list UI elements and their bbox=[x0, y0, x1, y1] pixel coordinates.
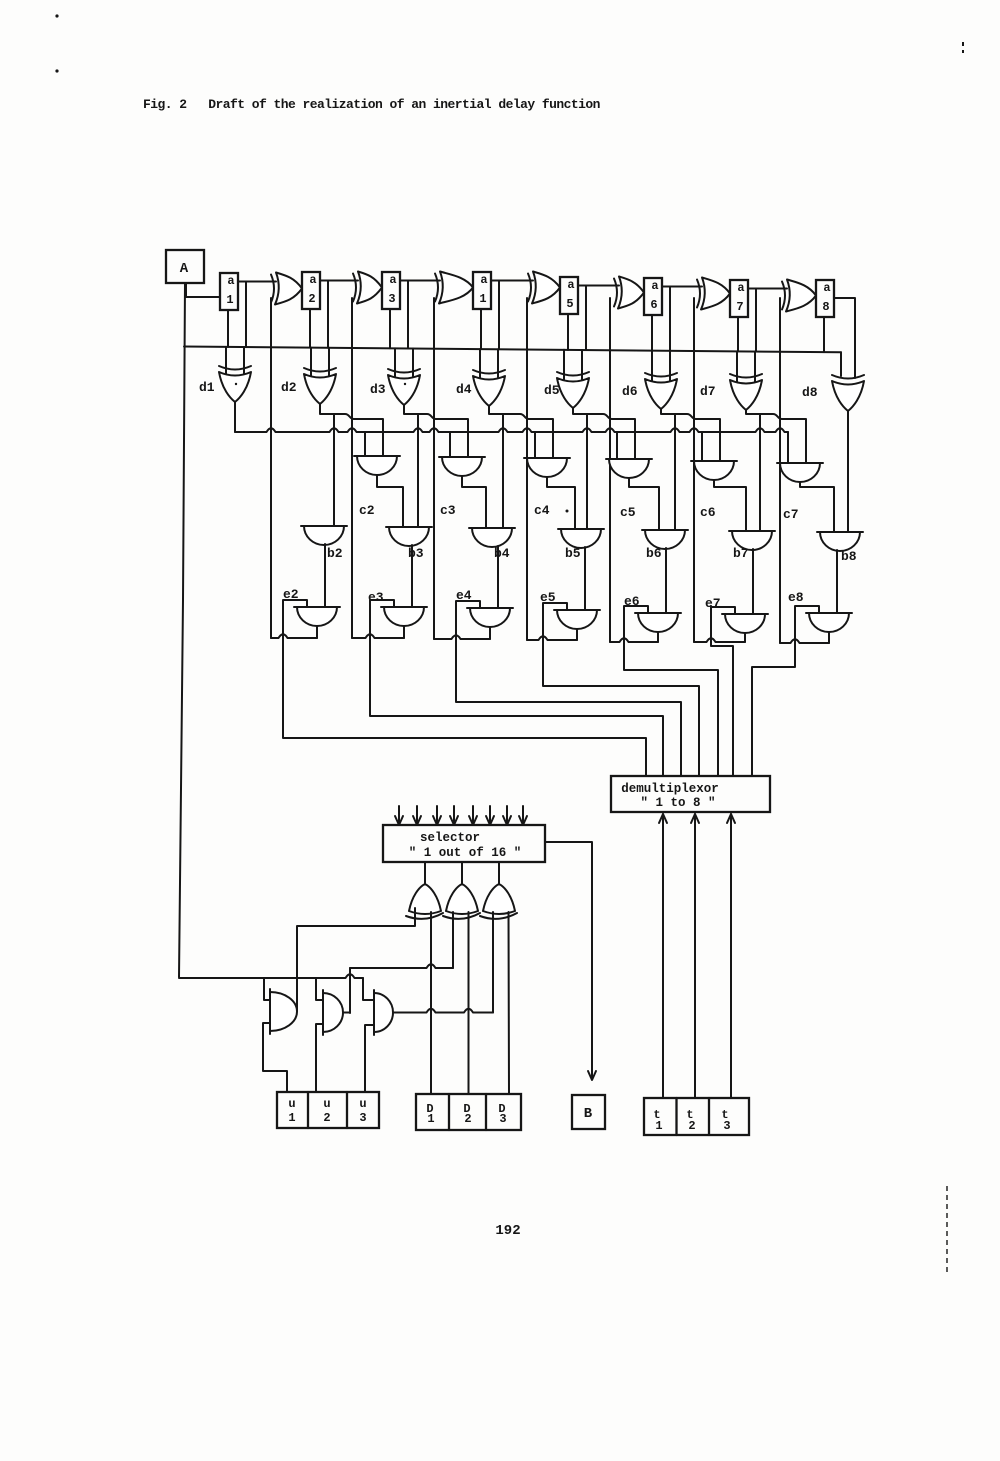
selector input arrow 5 bbox=[472, 806, 474, 825]
svg-text:c2: c2 bbox=[359, 503, 375, 518]
svg-text:d1: d1 bbox=[199, 380, 215, 395]
wire a6 bottom to bus bbox=[651, 315, 653, 351]
xor gate d7 bbox=[730, 374, 762, 378]
selector input arrow 1 bbox=[398, 806, 400, 825]
and gate c2 bbox=[354, 455, 400, 457]
wire and2 output bbox=[343, 1012, 350, 1014]
box selector 1 out of 16 bbox=[383, 825, 545, 862]
and gate e5 bbox=[554, 609, 600, 611]
wire long rail drop to c6 left input bbox=[701, 432, 703, 461]
wire bus to d3 inputs bbox=[394, 348, 396, 377]
wire a7 output tap to bus bbox=[755, 289, 757, 352]
wire vertical column 2 (xor2 low input down to e2 output) bbox=[270, 298, 272, 638]
svg-text:3: 3 bbox=[359, 1111, 366, 1125]
wire a6 output tap to bus bbox=[669, 287, 671, 351]
svg-text:7: 7 bbox=[736, 300, 743, 314]
wire bus to d7 inputs bbox=[736, 351, 738, 382]
wire bus to d6 inputs bbox=[651, 351, 653, 381]
and gate c4 bbox=[524, 457, 570, 459]
wire e7 left input / demultiplexor input 6 bbox=[711, 607, 735, 776]
xor gate S1 (selector input) bbox=[409, 884, 441, 914]
svg-text:b8: b8 bbox=[841, 549, 857, 564]
wire and3 output rail to S3 left input bbox=[393, 1009, 493, 1013]
svg-text:a: a bbox=[567, 278, 574, 292]
xor gate X6 (feeds a6) bbox=[614, 279, 617, 307]
register a4 bbox=[473, 272, 491, 309]
divider t2/t3 bbox=[708, 1098, 710, 1135]
wire vertical column 5 (xor5 low input down to e5 output) bbox=[526, 298, 528, 640]
svg-text:c7: c7 bbox=[783, 507, 799, 522]
wire u1 to and1 low input bbox=[263, 1023, 287, 1092]
svg-text:6: 6 bbox=[650, 298, 657, 312]
wire vertical column 6 (xor6 low input down to e6 output) bbox=[609, 298, 611, 642]
wire t2 to demultiplexor (arrow up) bbox=[694, 814, 696, 1098]
wire c7 output to b8 left input bbox=[800, 482, 834, 532]
svg-text:2: 2 bbox=[464, 1112, 471, 1126]
wire a7 output to xor8 bbox=[748, 288, 787, 290]
and gate e7 bbox=[722, 613, 768, 615]
svg-text:1: 1 bbox=[226, 293, 233, 307]
wire S3 right input to D3 bbox=[508, 912, 511, 1094]
wire b3 output to e3 right input bbox=[411, 545, 413, 607]
svg-text:d2: d2 bbox=[281, 380, 297, 395]
wire e3 left input / demultiplexor input 2 bbox=[370, 600, 663, 776]
wire d2 rail T-drop to b2 right input bbox=[333, 414, 335, 526]
wire a8 output to d8 bbox=[834, 298, 855, 378]
wire a3 output tap to bus bbox=[407, 281, 409, 349]
wire and1 output up to S1 rail bbox=[296, 978, 298, 1012]
svg-text:2: 2 bbox=[323, 1111, 330, 1125]
wire c3 output to b4 left input bbox=[462, 476, 486, 528]
divider D2/D3 bbox=[485, 1094, 487, 1130]
and gate U3 bbox=[373, 990, 375, 1035]
wire S2 right input to D2 bbox=[468, 912, 470, 1094]
wire A-chain to S1 left input bbox=[297, 908, 415, 978]
selector input arrow 4 bbox=[453, 806, 455, 825]
svg-text:d4: d4 bbox=[456, 382, 472, 397]
wire and2 output to S2 left input bbox=[350, 964, 453, 968]
svg-text:a: a bbox=[737, 281, 744, 295]
wire d5 output rail to c5 right input bbox=[573, 408, 635, 459]
wire a5 bottom to bus bbox=[567, 314, 569, 350]
svg-text:d6: d6 bbox=[622, 384, 638, 399]
wire a5 output tap to bus bbox=[585, 286, 587, 351]
wire a1 bottom to bus bbox=[227, 310, 229, 347]
wire long rail drop to c5 left input bbox=[616, 432, 618, 459]
svg-text:u: u bbox=[288, 1097, 295, 1111]
divider u1/u2 bbox=[307, 1092, 309, 1128]
wire a1 output tap to bus bbox=[245, 282, 247, 348]
svg-text:a: a bbox=[227, 274, 234, 288]
svg-text:2: 2 bbox=[308, 292, 315, 306]
register a5 bbox=[560, 277, 578, 314]
wire bus end to and3 top input bbox=[363, 978, 374, 1000]
svg-text:a: a bbox=[389, 273, 396, 287]
and gate e3 bbox=[381, 606, 427, 608]
selector input arrow 7 bbox=[506, 806, 508, 825]
svg-text:c4: c4 bbox=[534, 503, 550, 518]
wire a2 output tap to bus bbox=[327, 281, 329, 348]
svg-text:b4: b4 bbox=[494, 546, 510, 561]
wire d5 rail T-drop to b5 right input bbox=[586, 414, 588, 529]
xor gate d4 bbox=[473, 370, 505, 374]
svg-text:d5: d5 bbox=[544, 383, 560, 398]
wire a4 bottom to bus bbox=[480, 309, 482, 349]
xor gate S3 (selector input) bbox=[483, 884, 515, 914]
wire u3 to and3 low input bbox=[365, 1025, 374, 1092]
wire d6 output rail to c6 right input bbox=[661, 409, 720, 461]
wire c4 output to b5 left input bbox=[547, 477, 575, 529]
wire d4 output rail to c4 right input bbox=[489, 406, 553, 458]
svg-text:" 1 to 8 ": " 1 to 8 " bbox=[640, 796, 715, 810]
wire e8 left input / demultiplexor input 7 bbox=[752, 606, 819, 776]
svg-text:u: u bbox=[359, 1097, 366, 1111]
xor gate d6 bbox=[645, 373, 677, 377]
svg-text:c5: c5 bbox=[620, 505, 636, 520]
and gate b6 bbox=[642, 529, 688, 531]
wire b8 output to e8 right input bbox=[836, 550, 838, 613]
register a2 bbox=[302, 272, 320, 309]
wire u2 to and2 low input bbox=[316, 1024, 323, 1092]
svg-text:3: 3 bbox=[499, 1112, 506, 1126]
wire e2 output bbox=[316, 626, 318, 638]
svg-text:3: 3 bbox=[723, 1119, 730, 1133]
wire selector to xor S2 bbox=[461, 862, 463, 884]
and gate b7 bbox=[729, 530, 775, 532]
wire e6 output bbox=[657, 632, 659, 642]
and gate e8 bbox=[806, 612, 852, 614]
wire a2 output to xor3 bbox=[320, 280, 358, 282]
svg-text:b6: b6 bbox=[646, 546, 662, 561]
svg-text:" 1 out of 16 ": " 1 out of 16 " bbox=[409, 846, 522, 860]
and gate U1 bbox=[269, 989, 271, 1034]
divider t1/t2 bbox=[675, 1098, 677, 1135]
wire d2 output rail to c2 right input bbox=[320, 404, 383, 456]
selector input arrow 3 bbox=[436, 806, 438, 825]
speck marks top right bbox=[962, 42, 964, 46]
wire d7 output rail to c7 right input bbox=[746, 410, 806, 463]
svg-text:b3: b3 bbox=[408, 546, 424, 561]
wire b2 output to e2 right input bbox=[324, 544, 326, 607]
and gate e6 bbox=[635, 612, 681, 614]
wire a5 output to xor6 bbox=[578, 285, 619, 287]
wire a2 bottom to bus bbox=[309, 309, 311, 348]
wire bus to d4 inputs bbox=[479, 349, 481, 378]
box B (output B) bbox=[572, 1095, 605, 1129]
xor gate S2 (selector input) bbox=[446, 884, 478, 914]
svg-text:b5: b5 bbox=[565, 546, 581, 561]
wire e4 left input / demultiplexor input 3 bbox=[456, 601, 681, 776]
and gate c5 bbox=[606, 458, 652, 460]
wire A to a1 bbox=[186, 283, 220, 297]
xor gate X3 (feeds a3) bbox=[353, 274, 356, 302]
wire a8 bottom to bus bbox=[823, 317, 825, 352]
wire d6 rail T-drop to b6 right input bbox=[674, 414, 676, 530]
wire long rail drop to c7 left input bbox=[787, 432, 789, 463]
and gate b3 bbox=[386, 526, 432, 528]
and gate b2 bbox=[301, 525, 347, 527]
divider u2/u3 bbox=[346, 1092, 348, 1128]
svg-text:e7: e7 bbox=[705, 596, 721, 611]
svg-text:2: 2 bbox=[688, 1119, 695, 1133]
svg-text:d3: d3 bbox=[370, 382, 386, 397]
wire t3 to demultiplexor (arrow up) bbox=[730, 814, 732, 1098]
stray dot after c4 bbox=[566, 510, 569, 513]
wire selector to xor S3 bbox=[498, 862, 500, 884]
svg-text:c3: c3 bbox=[440, 503, 456, 518]
wire d1 output long rail feeding c left inputs bbox=[234, 402, 236, 432]
svg-text:b7: b7 bbox=[733, 546, 749, 561]
wire e5 left input / demultiplexor input 4 bbox=[543, 603, 699, 776]
xor gate X7 (feeds a7) bbox=[697, 280, 700, 308]
svg-text:1: 1 bbox=[288, 1111, 295, 1125]
wire d3 rail T-drop to b3 right input bbox=[417, 414, 419, 527]
wire e3 output bbox=[403, 626, 405, 638]
wire t1 to demultiplexor (arrow up) bbox=[662, 814, 664, 1098]
dashed margin line right bbox=[946, 1186, 948, 1272]
box D1 D2 D3 bbox=[416, 1094, 521, 1130]
box u1 u2 u3 bbox=[277, 1092, 379, 1128]
box demultiplexor 1 to 8 bbox=[611, 776, 770, 812]
wire long rail drop to c4 left input bbox=[534, 432, 536, 458]
register a8 bbox=[816, 280, 834, 317]
xor gate d2 bbox=[304, 368, 336, 372]
xor gate X2 (feeds a2) bbox=[271, 275, 274, 303]
wire selector to xor S1 bbox=[424, 862, 426, 884]
wire bus to d5 inputs bbox=[563, 350, 565, 380]
stray dot in d3 bbox=[404, 383, 406, 385]
and gate c3 bbox=[439, 456, 485, 458]
svg-text:3: 3 bbox=[388, 292, 395, 306]
wire bus to and2 top input bbox=[316, 978, 323, 1000]
wire A bus bottom bbox=[179, 974, 363, 978]
svg-text:d7: d7 bbox=[700, 384, 716, 399]
wire vertical column 7 (xor7 low input down to e7 output) bbox=[693, 298, 695, 642]
wire c6 output to b7 left input bbox=[714, 480, 746, 531]
register a7 bbox=[730, 280, 748, 317]
wire d4 rail T-drop to b4 right input bbox=[502, 414, 504, 528]
xor gate X8 (feeds a8) bbox=[782, 282, 785, 310]
svg-text:c6: c6 bbox=[700, 505, 716, 520]
wire bus to and1 top input bbox=[264, 978, 270, 1000]
register a6 bbox=[644, 278, 662, 315]
divider D1/D2 bbox=[448, 1094, 450, 1130]
svg-text:B: B bbox=[584, 1106, 593, 1122]
xor gate X5 (feeds a5) bbox=[528, 274, 531, 302]
and gate c6 bbox=[691, 460, 737, 462]
wire d7 rail T-drop to b7 right input bbox=[759, 414, 761, 531]
svg-text:d8: d8 bbox=[802, 385, 818, 400]
svg-text:a: a bbox=[480, 273, 487, 287]
svg-text:a: a bbox=[823, 281, 830, 295]
selector input arrow 2 bbox=[416, 806, 418, 825]
wire a3 bottom to bus bbox=[389, 309, 391, 348]
svg-text:1: 1 bbox=[479, 292, 486, 306]
svg-text:selector: selector bbox=[420, 831, 480, 845]
wire long rail drop to c2 left input bbox=[364, 432, 366, 456]
wire S1 right input to D1 bbox=[430, 912, 432, 1094]
svg-text:1: 1 bbox=[655, 1119, 662, 1133]
svg-text:u: u bbox=[323, 1097, 330, 1111]
wire b5 output to e5 right input bbox=[584, 547, 586, 610]
arrowhead into B bbox=[588, 1071, 596, 1080]
svg-text:Fig. 2 Draft of the realizat: Fig. 2 Draft of the realization of an in… bbox=[143, 97, 601, 112]
wire b7 output to e7 right input bbox=[752, 549, 754, 614]
wire selector output to B bbox=[545, 842, 592, 1079]
wire b6 output to e6 right input bbox=[665, 548, 667, 613]
wire long rail drop to c3 left input bbox=[449, 432, 451, 457]
svg-text:5: 5 bbox=[566, 297, 573, 311]
wire bus end down to d8 left input bbox=[840, 352, 842, 376]
wire e8 output bbox=[828, 632, 830, 643]
svg-text:b2: b2 bbox=[327, 546, 343, 561]
wire vertical column 3 (xor3 low input down to e3 output) bbox=[351, 298, 353, 638]
wire vertical column 8 (xor8 low input down to e8 output) bbox=[779, 298, 781, 643]
wire e6 left input / demultiplexor input 5 bbox=[624, 606, 718, 776]
svg-text:e8: e8 bbox=[788, 590, 804, 605]
wire A long vertical left bbox=[179, 283, 185, 977]
svg-text:a: a bbox=[309, 273, 316, 287]
wire e4 output bbox=[489, 627, 491, 639]
wire e2 left input / demultiplexor input 1 bbox=[283, 600, 646, 776]
xor gate d8 bbox=[832, 375, 864, 379]
wire c5 output to b6 left input bbox=[629, 478, 659, 530]
wire a4 output to xor5 bbox=[491, 280, 533, 282]
and gate U2 bbox=[322, 990, 324, 1035]
wire a3 output to xor4 bbox=[400, 280, 440, 282]
selector input arrow 8 bbox=[522, 806, 524, 825]
wire a7 bottom to bus bbox=[737, 317, 739, 351]
wire d3 output rail to c3 right input bbox=[404, 405, 468, 457]
and gate b4 bbox=[469, 527, 515, 529]
wire e7 output bbox=[744, 633, 746, 642]
and gate e2 bbox=[294, 606, 340, 608]
wire e5 output bbox=[576, 629, 578, 640]
wire a4 output tap to bus bbox=[498, 281, 500, 350]
wire d8 output down to b8 bbox=[847, 411, 849, 532]
xor gate d1 bbox=[219, 366, 251, 370]
svg-text:1: 1 bbox=[427, 1112, 434, 1126]
selector input arrow 6 bbox=[489, 806, 491, 825]
wire bus A horizontal bbox=[184, 347, 841, 353]
wire a1 output to xor2 bbox=[238, 281, 276, 283]
svg-text:192: 192 bbox=[495, 1223, 520, 1239]
svg-text:A: A bbox=[180, 261, 189, 277]
and gate b8 bbox=[817, 531, 863, 533]
svg-text:a: a bbox=[651, 279, 658, 293]
wire b4 output to e4 right input bbox=[497, 546, 499, 608]
and gate b5 bbox=[558, 528, 604, 530]
wire a6 output to xor7 bbox=[662, 286, 702, 288]
xor gate X4 (feeds a4) bbox=[435, 274, 438, 302]
svg-text:8: 8 bbox=[822, 300, 829, 314]
box t1 t2 t3 bbox=[644, 1098, 749, 1135]
wire c2 output to b3 left input bbox=[377, 475, 403, 527]
stray dot in d1 bbox=[235, 383, 237, 385]
wire bus to d2 inputs bbox=[310, 348, 312, 376]
and gate c7 bbox=[777, 462, 823, 464]
svg-text:demultiplexor: demultiplexor bbox=[621, 782, 719, 796]
box A (input A) bbox=[166, 250, 204, 283]
register a1 bbox=[220, 273, 238, 310]
xor gate d3 bbox=[388, 369, 420, 373]
speck dots top left bbox=[55, 14, 58, 17]
wire vertical column 4 (xor4 low input down to e4 output) bbox=[433, 298, 435, 639]
xor gate d5 bbox=[557, 372, 589, 376]
register a3 bbox=[382, 272, 400, 309]
wire bus to d1 inputs bbox=[225, 347, 227, 374]
and gate e4 bbox=[467, 607, 513, 609]
